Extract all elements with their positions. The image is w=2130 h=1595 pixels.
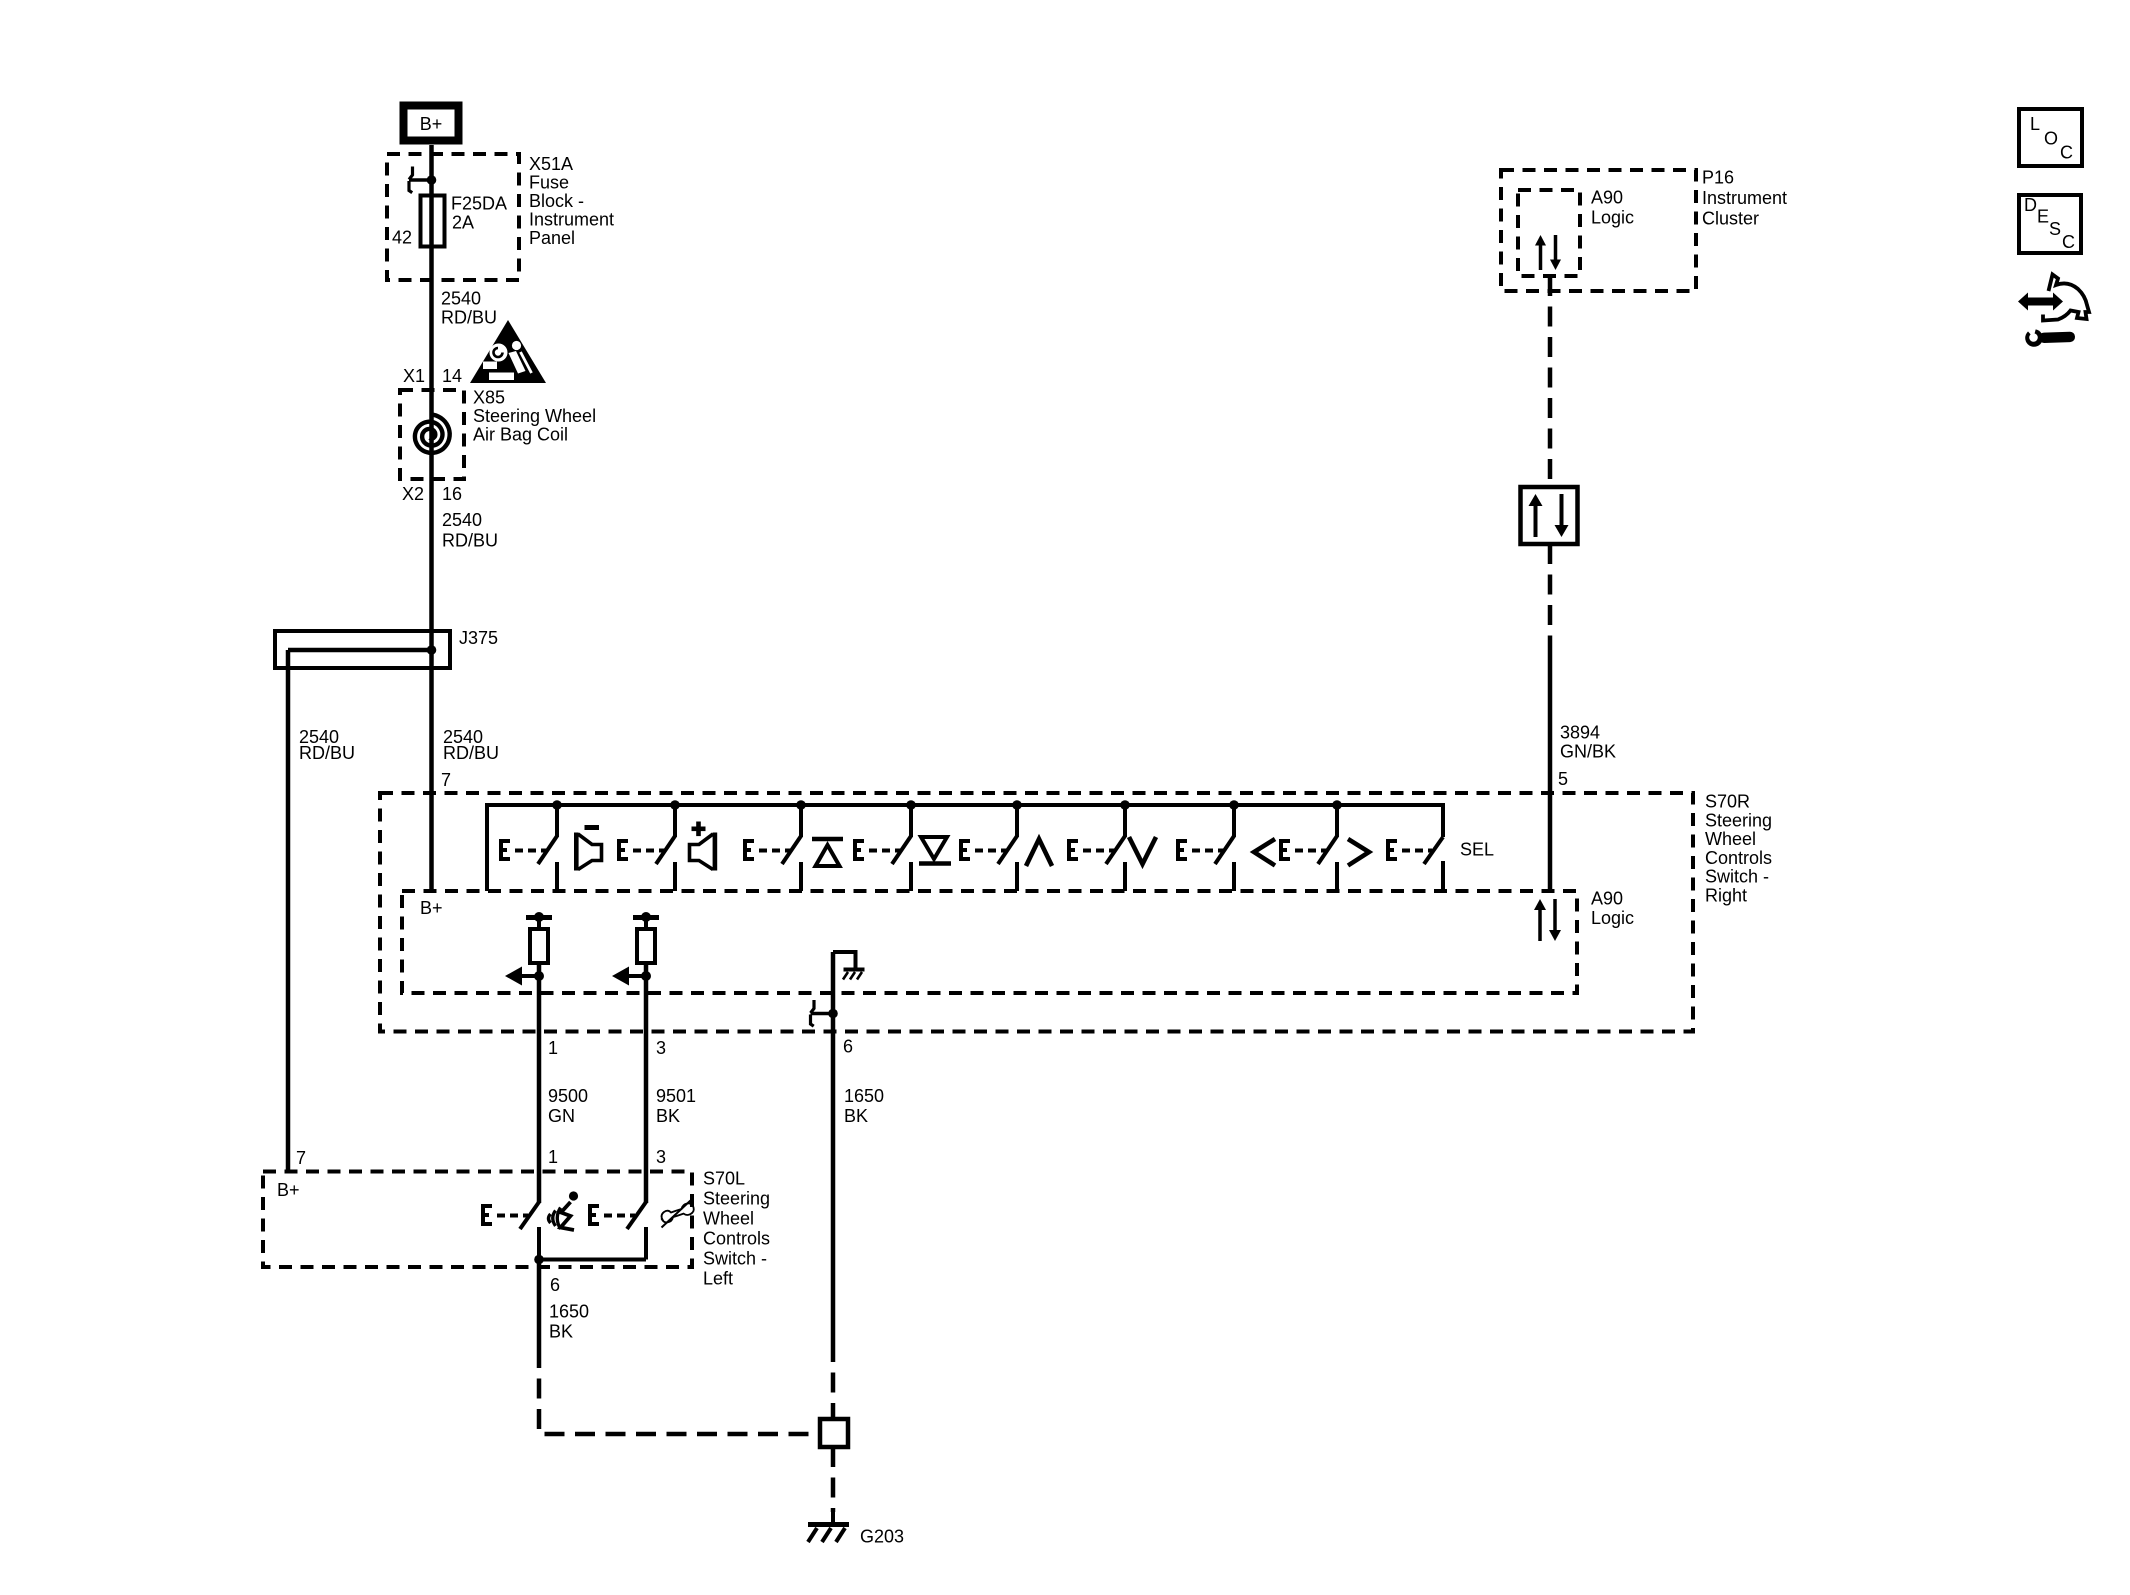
- splice J375: [275, 631, 450, 668]
- dashed continuation of right 1650 BK: [831, 1342, 836, 1419]
- svg-text:G203: G203: [860, 1527, 904, 1547]
- svg-text:Panel: Panel: [529, 228, 575, 248]
- svg-text:Steering: Steering: [1705, 810, 1772, 830]
- switch SEL (S70R): [1424, 837, 1443, 864]
- svg-text:6: 6: [550, 1275, 560, 1295]
- connector box X85 Steering Wheel Air Bag Coil: [400, 390, 464, 479]
- svg-text:Logic: Logic: [1591, 208, 1634, 228]
- icon voice recognition: [569, 1191, 578, 1200]
- switch volume down (S70R): [552, 800, 562, 810]
- terminal of seek up switch: [743, 839, 754, 861]
- terminal of menu down switch: [1067, 839, 1078, 861]
- wire (dashed link) seek up: [759, 849, 790, 853]
- switch menu up (S70R): [1012, 800, 1022, 810]
- switch phone/end call (S70L): [644, 1172, 648, 1204]
- wire 3894 GN/BK: [1548, 637, 1553, 889]
- switch next (S70R): [1332, 800, 1342, 810]
- svg-text:1650: 1650: [844, 1086, 884, 1106]
- svg-text:Switch -: Switch -: [703, 1249, 767, 1269]
- terminal of menu up switch: [959, 839, 970, 861]
- dashed serial data wire below symbol: [1548, 544, 1553, 637]
- svg-text:A90: A90: [1591, 188, 1623, 208]
- component box S70L Steering Wheel Controls Switch - Left: [263, 1172, 692, 1268]
- terminal of next switch: [1279, 839, 1290, 861]
- power symbol B+ (battery feed): [404, 106, 459, 141]
- wire (dashed link) volume down: [515, 849, 546, 853]
- switch voice recognition (S70L): [537, 1172, 541, 1204]
- svg-text:C: C: [2062, 232, 2075, 252]
- svg-text:Wheel: Wheel: [703, 1209, 754, 1229]
- svg-text:7: 7: [441, 770, 451, 790]
- wire J375 left branch to S70L (2540 RD/BU): [286, 650, 291, 1172]
- wire pin1 S70R to pin1 S70L (9500 GN): [537, 963, 542, 1203]
- svg-text:Block -: Block -: [529, 191, 584, 211]
- svg-text:2540: 2540: [442, 510, 482, 530]
- terminal of seek down switch: [853, 839, 864, 861]
- svg-text:F25DA: F25DA: [451, 194, 507, 214]
- icon left chevron: [1254, 839, 1275, 866]
- svg-text:Air Bag Coil: Air Bag Coil: [473, 425, 568, 445]
- svg-text:B+: B+: [420, 898, 443, 918]
- svg-text:5: 5: [1558, 769, 1568, 789]
- svg-text:Fuse: Fuse: [529, 173, 569, 193]
- svg-text:1650: 1650: [549, 1302, 589, 1322]
- svg-text:Instrument: Instrument: [529, 210, 614, 230]
- svg-text:X2: X2: [402, 484, 424, 504]
- wire join inside S70L to pin 6: [539, 1258, 646, 1262]
- svg-text:RD/BU: RD/BU: [441, 308, 497, 328]
- svg-text:9500: 9500: [548, 1086, 588, 1106]
- svg-text:S70R: S70R: [1705, 792, 1750, 812]
- switch supply bus wire: [487, 805, 1443, 891]
- icon seek down (triangle with underline): [921, 837, 947, 859]
- svg-text:1: 1: [548, 1038, 558, 1058]
- coil spiral X85: [415, 415, 450, 453]
- internal ground path with chassis clip (pin 6 circuit): [833, 952, 856, 968]
- terminal of volume down switch: [499, 839, 510, 861]
- switch seek down (S70R): [906, 800, 916, 810]
- wire B+ feed down through fuse block to J375 and S70R: [429, 145, 434, 891]
- svg-text:X85: X85: [473, 388, 505, 408]
- A90 serial symbol (P16): [1539, 244, 1543, 271]
- terminal phone switch: [588, 1204, 599, 1226]
- icon volume down (speaker with minus): [585, 825, 600, 830]
- svg-text:Steering Wheel: Steering Wheel: [473, 406, 596, 426]
- svg-text:P16: P16: [1702, 168, 1734, 188]
- splice block: [820, 1419, 848, 1447]
- icon volume up (speaker with plus): [692, 827, 706, 832]
- svg-text:S70L: S70L: [703, 1169, 745, 1189]
- svg-text:Cluster: Cluster: [1702, 209, 1759, 229]
- component box P16 Instrument Cluster: [1501, 170, 1696, 291]
- svg-text:1: 1: [548, 1147, 558, 1167]
- svg-text:Wheel: Wheel: [1705, 829, 1756, 849]
- terminal voice switch: [481, 1204, 492, 1226]
- fuse F25DA 2A: [421, 196, 445, 247]
- svg-text:SEL: SEL: [1460, 840, 1494, 860]
- svg-text:9501: 9501: [656, 1086, 696, 1106]
- svg-text:2540: 2540: [441, 289, 481, 309]
- wire (dashed link) volume up: [633, 849, 664, 853]
- dashed continuation of 1650 BK to splice: [539, 1348, 818, 1434]
- svg-text:42: 42: [392, 228, 412, 248]
- svg-text:3894: 3894: [1560, 723, 1600, 743]
- clip terminal inside fuse block: [409, 178, 432, 182]
- svg-text:S: S: [2049, 219, 2061, 239]
- svg-text:3: 3: [656, 1038, 666, 1058]
- DESC button: [2019, 195, 2081, 253]
- switch menu down (S70R): [1120, 800, 1130, 810]
- wire (dashed link) previous: [1192, 849, 1223, 853]
- svg-text:X51A: X51A: [529, 154, 573, 174]
- wire (dashed link) menu up: [975, 849, 1006, 853]
- LOC button: [2019, 109, 2082, 166]
- svg-text:BK: BK: [656, 1106, 680, 1126]
- wire (dashed link) seek down: [869, 849, 900, 853]
- terminal of volume up switch: [617, 839, 628, 861]
- svg-text:Controls: Controls: [703, 1229, 770, 1249]
- svg-text:GN/BK: GN/BK: [1560, 742, 1616, 762]
- wire pin3 S70R to pin3 S70L (9501 BK): [644, 963, 649, 1203]
- svg-text:O: O: [2044, 129, 2058, 149]
- svg-text:X1: X1: [403, 366, 425, 386]
- svg-text:BK: BK: [549, 1322, 573, 1342]
- svg-text:L: L: [2030, 114, 2040, 134]
- terminal of previous switch: [1176, 839, 1187, 861]
- junction at J375: [427, 645, 437, 655]
- dashed wire to ground: [831, 1447, 836, 1512]
- svg-text:2A: 2A: [452, 213, 474, 233]
- svg-text:6: 6: [843, 1037, 853, 1057]
- serial data symbol box: [1521, 487, 1578, 544]
- wire 1650 BK from internal ground to pin 6: [831, 952, 836, 1342]
- svg-text:RD/BU: RD/BU: [299, 743, 355, 763]
- svg-text:J375: J375: [459, 628, 498, 648]
- svg-text:Controls: Controls: [1705, 848, 1772, 868]
- switch volume up (S70R): [670, 800, 680, 810]
- switch seek up (S70R): [796, 800, 806, 810]
- svg-text:14: 14: [442, 366, 462, 386]
- switch previous (S70R): [1229, 800, 1239, 810]
- svg-text:Instrument: Instrument: [1702, 188, 1787, 208]
- air bag warning triangle icon: [470, 320, 546, 383]
- ground G203: [831, 1510, 835, 1524]
- svg-text:RD/BU: RD/BU: [442, 531, 498, 551]
- A90 logic serial symbol (S70R): [1538, 908, 1542, 941]
- icon right chevron: [1348, 839, 1369, 866]
- svg-text:Logic: Logic: [1591, 908, 1634, 928]
- svg-text:A90: A90: [1591, 889, 1623, 909]
- terminal of SEL switch: [1386, 839, 1397, 861]
- svg-text:C: C: [2060, 143, 2073, 163]
- svg-text:GN: GN: [548, 1106, 575, 1126]
- svg-text:E: E: [2037, 207, 2049, 227]
- component box S70R Steering Wheel Controls Switch - Right: [380, 793, 1693, 1032]
- svg-text:BK: BK: [844, 1106, 868, 1126]
- logic block A90 inside S70R: [402, 891, 1577, 993]
- svg-text:B+: B+: [277, 1180, 300, 1200]
- svg-text:RD/BU: RD/BU: [443, 743, 499, 763]
- svg-text:Left: Left: [703, 1269, 733, 1289]
- svg-text:16: 16: [442, 484, 462, 504]
- svg-text:Switch -: Switch -: [1705, 867, 1769, 887]
- wire (dashed link) menu down: [1083, 849, 1114, 853]
- dashed serial data wire from P16: [1548, 276, 1553, 487]
- icon down chevron: [1129, 837, 1156, 864]
- icon seek up (triangle with overline): [812, 837, 843, 842]
- svg-text:Steering: Steering: [703, 1189, 770, 1209]
- icon phone end-call: [662, 1201, 694, 1228]
- tool/routing icon: [2018, 293, 2063, 311]
- logic block A90 inside P16: [1518, 190, 1580, 276]
- resistor pull-up (pin 3 circuit): [633, 915, 659, 920]
- svg-text:3: 3: [656, 1147, 666, 1167]
- svg-text:Right: Right: [1705, 886, 1747, 906]
- wire (dashed link) next: [1295, 849, 1326, 853]
- wire 1650 BK from S70L pin 6: [537, 1260, 542, 1349]
- svg-text:B+: B+: [420, 114, 443, 134]
- icon up chevron: [1026, 839, 1052, 866]
- svg-text:7: 7: [296, 1148, 306, 1168]
- clip terminal on ground wire: [811, 1012, 834, 1016]
- connector box X51A Fuse Block - Instrument Panel: [387, 154, 519, 280]
- resistor pull-up (pin 1 circuit): [526, 915, 552, 920]
- svg-text:D: D: [2024, 195, 2037, 215]
